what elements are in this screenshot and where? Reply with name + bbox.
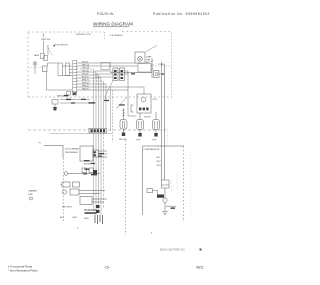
svg-text:COMPRESSOR: COMPRESSOR (144, 149, 160, 151)
svg-text:DISPENSER: DISPENSER (65, 152, 78, 154)
H2 plug (138, 133, 141, 137)
wire S3 bottom (63, 75, 73, 77)
dotted stub right of H3 (166, 128, 168, 146)
door switch S1 (41, 54, 45, 59)
svg-text:BLU-18: BLU-18 (82, 76, 88, 78)
H3 plug (154, 133, 157, 137)
start relay block (157, 195, 164, 198)
svg-text:ORG: ORG (157, 165, 162, 167)
svg-text:DOOR SWITCH: DOOR SWITCH (54, 45, 68, 47)
svg-text:BLK: BLK (157, 157, 161, 159)
svg-text:SCH-167493-01: SCH-167493-01 (160, 248, 185, 252)
connector CN2 pair (113, 68, 125, 81)
node dot (54, 45, 55, 46)
svg-text:BRN-18: BRN-18 (82, 79, 89, 81)
wire lamp return (47, 89, 73, 91)
outer dashed border right (190, 152, 192, 214)
CN1 bottom pin (73, 93, 76, 95)
U2 pin row (139, 108, 141, 111)
H1 plug (122, 133, 125, 137)
start device wire (153, 191, 158, 195)
cap label (171, 207, 176, 209)
cabinet ground symbol (30, 197, 33, 200)
wire lamp lead down (34, 65, 36, 74)
solenoid pins (93, 170, 97, 174)
H1 top tag (119, 104, 125, 105)
svg-text:Publication No. 5995584503: Publication No. 5995584503 (153, 12, 210, 16)
svg-text:x: x (151, 232, 153, 235)
bracket node (131, 105, 134, 112)
freezer lamp DS1 (33, 62, 37, 66)
CN1 pin wires out (77, 63, 144, 90)
svg-text:BK WH: BK WH (145, 117, 152, 119)
CN2 feed wires (95, 63, 144, 116)
thermal fuse box (52, 100, 58, 105)
wire S3 top to connector (63, 65, 73, 67)
wire light switch drop (43, 33, 45, 38)
svg-text:HTR: HTR (137, 139, 141, 141)
dispenser feed wire (44, 146, 63, 159)
CN2 pins (114, 70, 123, 79)
board side pins (94, 151, 96, 153)
wire tags (157, 157, 162, 167)
water valve box (80, 197, 92, 205)
svg-text:-15-: -15- (104, 266, 110, 270)
bundle wire tag (104, 100, 109, 101)
power bus wire L1 (110, 72, 152, 74)
wire y99 (60, 99, 90, 101)
harness junction connector J2 (89, 128, 107, 133)
sensor plug (53, 107, 57, 111)
svg-text:CABINET: CABINET (28, 190, 38, 193)
splice boxes above bottom rail (67, 92, 71, 96)
svg-text:WHT-16: WHT-16 (82, 64, 89, 66)
relay box K1 (101, 63, 110, 70)
wire S2 to return (46, 72, 48, 91)
dispenser control board (80, 146, 107, 161)
svg-text:HTR: HTR (153, 139, 157, 141)
switch S3 (58, 63, 63, 76)
defrost heater feed wires lower left of section (52, 100, 96, 108)
evaporator fan motor box (135, 52, 145, 63)
svg-text:ICE & WATER: ICE & WATER (65, 148, 79, 151)
fresh food / ice maker section dashed enclosure (28, 31, 104, 33)
svg-text:DEF HTR: DEF HTR (119, 139, 127, 141)
svg-text:WHT: WHT (73, 217, 78, 219)
overload protector box (162, 180, 170, 188)
rev mark (200, 249, 202, 251)
bundle continues below bar (94, 133, 104, 215)
svg-text:WIRING DIAGRAM: WIRING DIAGRAM (93, 22, 133, 27)
defrost thermostat body (154, 71, 166, 78)
compressor enclosure (143, 146, 185, 215)
CN2 side tag (131, 73, 135, 74)
wire S4 a (70, 69, 73, 71)
motor wire down (164, 203, 166, 212)
svg-text:BLK: BLK (60, 217, 64, 219)
svg-text:GRN: GRN (84, 218, 89, 220)
wire dash-dot feed (29, 67, 43, 69)
svg-text:ORG-18: ORG-18 (82, 67, 89, 69)
dispenser tag row (85, 212, 97, 214)
pin marks (96, 205, 100, 208)
dispenser switch SW5 (61, 182, 108, 205)
ground at compressor (162, 212, 168, 215)
compressor wires down (162, 62, 165, 180)
svg-text:06/11: 06/11 (196, 266, 204, 270)
svg-text:ADC: ADC (146, 61, 151, 64)
svg-text:DISPENSER: DISPENSER (84, 210, 98, 212)
harness bundle vertical wires (94, 69, 113, 142)
wire diagonal to fan (146, 46, 157, 52)
svg-text:WHT: WHT (157, 161, 162, 163)
heater H2 (137, 113, 144, 134)
solenoid tag b (91, 174, 97, 175)
svg-text:FAN: FAN (147, 58, 151, 61)
svg-text:ICE MAKER: ICE MAKER (110, 34, 124, 37)
defrost control box (138, 64, 151, 73)
wire y103 (60, 102, 96, 104)
connector CN1 ladder (73, 61, 77, 93)
wire hash ticks (151, 61, 153, 71)
svg-text:SW LIGHT: SW LIGHT (62, 207, 72, 209)
solenoid tag a (85, 169, 90, 170)
svg-text:BLK-16: BLK-16 (82, 61, 88, 63)
machine compartment dashed border (183, 146, 185, 222)
svg-text:GRY-18: GRY-18 (82, 82, 89, 84)
door dashed border right (125, 140, 127, 235)
auger motor M2 (62, 190, 66, 194)
junction block (43, 66, 48, 72)
dispenser solenoid cluster (64, 168, 100, 175)
thermostat dash-dot tie (153, 65, 172, 67)
svg-text:EVAP: EVAP (147, 56, 153, 59)
harness wire tag mid (99, 153, 104, 154)
wire end terminals (95, 215, 103, 224)
svg-text:FRESH FOOD: FRESH FOOD (76, 34, 91, 36)
dotted stub right of overload (171, 181, 173, 191)
diagonal harness wire (116, 97, 127, 109)
solenoid tag c (83, 173, 87, 174)
svg-text:CTRL: CTRL (152, 99, 157, 101)
switch S2 body (44, 56, 48, 61)
run capacitor wire (166, 205, 176, 207)
motor feed wire (164, 188, 166, 198)
center dash separator line (28, 129, 166, 131)
svg-text:FGUI3-HL: FGUI3-HL (97, 12, 114, 16)
svg-text:RED-18: RED-18 (82, 70, 89, 72)
heater H3 (153, 112, 160, 133)
svg-text:YEL-18: YEL-18 (82, 73, 88, 75)
secondary gray dash line (50, 133, 112, 135)
start device box (147, 189, 153, 193)
heater H1 (120, 108, 127, 133)
svg-text:x: x (77, 227, 79, 230)
CN1 wire color labels (82, 61, 89, 90)
wire S4 b (70, 72, 73, 74)
board tag b (91, 163, 96, 164)
compressor motor M1 (163, 198, 167, 202)
svg-text:GND: GND (28, 194, 33, 196)
dotted tie column (176, 173, 178, 191)
svg-text:P5: P5 (39, 143, 41, 145)
wire S2 top link (47, 63, 49, 66)
svg-text:PNK-18: PNK-18 (82, 85, 89, 87)
svg-text:TAN-18: TAN-18 (82, 87, 88, 90)
harness curve from CN2 (105, 80, 113, 99)
svg-text:* Non-Illustrated Parts: * Non-Illustrated Parts (8, 269, 38, 273)
wire tag on y103 (71, 102, 75, 103)
wire drop to thermostat (151, 58, 153, 78)
svg-text:AUGER: AUGER (84, 163, 91, 166)
adaptive control box U2 (137, 94, 151, 113)
switch S4 (66, 63, 70, 76)
svg-text:LAMP: LAMP (34, 54, 40, 57)
door dashed border (62, 158, 64, 222)
wire tag on y99 (66, 99, 71, 100)
svg-text:LIGHT SW: LIGHT SW (41, 39, 50, 41)
board tag a (84, 160, 90, 161)
